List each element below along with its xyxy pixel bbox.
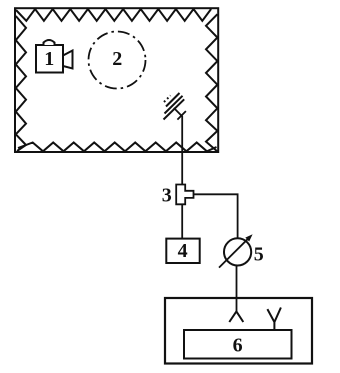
T-connector 3 <box>176 185 193 205</box>
connector caret on wire <box>229 311 243 322</box>
antenna feed boom <box>174 108 183 117</box>
wire attenuator to receiver <box>236 266 238 312</box>
absorber zigzag bottom <box>18 143 217 152</box>
svg-text:3: 3 <box>162 184 172 206</box>
receiver enclosure <box>165 298 312 364</box>
camera 1 body <box>36 45 63 73</box>
svg-text:1: 1 <box>44 48 54 70</box>
absorber zigzag top <box>16 9 211 21</box>
wire antenna to T-connector <box>181 117 183 185</box>
wire T to attenuator <box>194 194 238 238</box>
receiver 6 <box>184 330 292 359</box>
absorber zigzag left <box>16 16 26 151</box>
turntable 2 (dash-dot circle) <box>89 32 146 89</box>
antenna (log-periodic) element lines <box>164 93 185 120</box>
box 4 <box>166 239 199 263</box>
anechoic chamber wall <box>15 8 218 152</box>
attenuator 5 arrow <box>219 237 250 267</box>
svg-text:4: 4 <box>178 240 188 262</box>
camera 1 lens <box>63 51 73 69</box>
svg-text:2: 2 <box>112 48 122 70</box>
absorber zigzag right <box>206 14 217 151</box>
antenna cross tick <box>177 111 186 120</box>
svg-text:5: 5 <box>254 243 264 265</box>
antenna symbol on receiver 6 <box>267 308 281 331</box>
attenuator 5 circle <box>224 238 251 265</box>
camera 1 top handle <box>44 40 55 45</box>
wire T to box 4 <box>181 204 183 238</box>
svg-text:6: 6 <box>233 335 243 357</box>
